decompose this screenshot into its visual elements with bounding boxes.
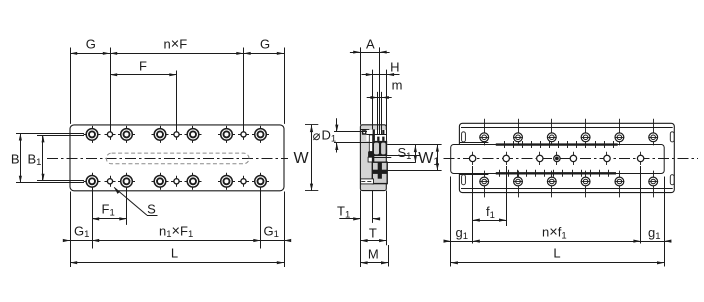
svg-text:n×F: n×F	[164, 37, 188, 53]
svg-text:m: m	[392, 78, 403, 93]
svg-text:⌀: ⌀	[313, 128, 321, 143]
svg-text:T: T	[369, 226, 377, 241]
svg-text:G: G	[260, 37, 270, 52]
svg-text:A: A	[366, 37, 375, 52]
svg-text:M: M	[368, 247, 379, 262]
svg-text:F: F	[139, 58, 147, 73]
svg-text:L: L	[171, 246, 178, 261]
svg-text:B: B	[11, 151, 20, 166]
svg-text:L: L	[553, 246, 560, 261]
svg-text:S: S	[147, 202, 156, 217]
svg-text:W: W	[293, 150, 309, 167]
svg-text:G: G	[86, 37, 96, 52]
svg-text:H: H	[390, 60, 399, 75]
